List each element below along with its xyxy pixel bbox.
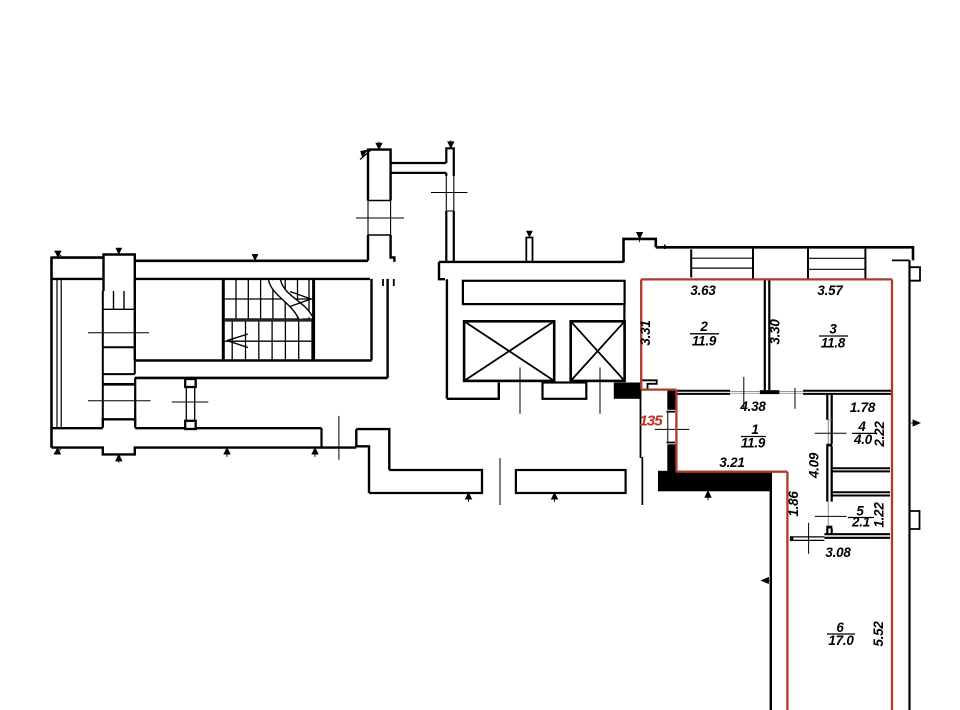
svg-text:17.0: 17.0 [828,633,854,648]
arrow: bottom band 1 [224,448,230,457]
wall: strip east line [134,378,136,419]
door: partition door 2 jambs [827,502,829,526]
arrow: lower band 2 [552,493,558,502]
dim tick: lower band opening 2 [641,457,643,505]
dim tick: elevator door 2 [599,368,601,414]
svg-text:2.1: 2.1 [851,515,870,530]
svg-text:2.22: 2.22 [872,421,887,448]
arrow: lower band 1 [466,493,472,502]
wall: vestibule strip west line [102,291,104,419]
dim line: connector crossing [172,401,209,403]
wall: lower band solid black part [658,471,771,492]
stairs: lower flight treads [232,322,312,361]
wall: small box x103-134 y347-374 [103,347,135,374]
dim tick: room3 door [794,388,796,409]
wall: left band end vertical [320,428,322,447]
svg-text:11.8: 11.8 [821,336,846,351]
wall: doorway head line [103,383,135,386]
wall: connector block top [185,379,196,387]
fraction line room4 [852,432,876,434]
wall: south wall right segment [803,391,891,394]
wall: partition door2 bottom cap [826,526,832,529]
wall: room2/3 partition [765,280,770,390]
dim tick: 3.08 wall [808,523,810,554]
wall: room4 south wall [832,468,890,471]
svg-text:3.08: 3.08 [825,545,851,560]
svg-text:4.0: 4.0 [853,432,873,447]
wall: corridor wall descending to bottom [770,471,772,710]
wall: partition door bottom cap [826,444,832,447]
wall: room5 north wall [832,492,890,495]
arrow: east wall right [911,420,920,426]
wall: pier edges [691,249,865,279]
arrow: bottom band notch [116,455,122,463]
wall: stair block top band top edge (left part) [52,256,104,259]
wall: top band pilaster bump [104,255,135,292]
wall: mullion window east edge [134,291,136,309]
window: bar1 sill lines [368,201,391,236]
wall: stair block east outer line [386,279,388,378]
svg-text:1.86: 1.86 [786,491,801,517]
wall: entrance east wall lower black [667,444,676,471]
wall: left exterior edge [50,257,53,448]
door threshold room3 [779,392,803,394]
niche rect [463,281,625,304]
window: bar2 thin middle [446,176,454,211]
wall: step up piece [624,239,656,263]
door threshold room2 [730,392,760,394]
elevator shaft 2 [571,321,625,381]
wall: connector block bottom [185,421,196,429]
dim line: left strip upper [88,332,149,334]
wall: east exterior wall [908,260,910,710]
red wall: east edge [891,279,893,710]
window: lower band rect [516,470,626,493]
svg-text:5.52: 5.52 [871,621,886,647]
wall: entrance east wall upper black [667,390,676,410]
tick on top edge [664,245,666,250]
wall: solid piece right of elevator door [614,383,642,399]
wall: left band bottom edge with notch [52,448,357,455]
dim tick: band door under entrance [642,457,644,505]
fraction line room6 [827,633,855,635]
dim tick: lower band door [499,458,501,505]
wall: pier between elevator doors [543,383,587,399]
svg-text:4.38: 4.38 [739,399,766,414]
fraction line room3 [819,335,848,337]
wall: lower band segment 1 [369,470,482,493]
red wall: entrance east edge [675,390,677,472]
svg-text:3.30: 3.30 [768,319,783,345]
arrow: bottom band 2 [312,448,318,457]
dim line: bar2 crossing [431,192,468,194]
dim line: left strip lower [88,400,151,402]
wall: stair block bottom outer edge [135,377,388,380]
window: room2 window lines [691,258,753,268]
wall: entrance west line [640,390,642,458]
arrow: bar1 corner diagonal [360,150,371,160]
svg-text:1.22: 1.22 [872,502,887,528]
svg-text:135: 135 [639,413,663,430]
elevator shaft 1 [464,321,554,381]
wall: staircase east wall [312,279,315,361]
wall: tower bar1 outline [368,150,394,262]
arrow: lower band 3 [705,491,711,500]
stairs: upper mid line [225,298,314,300]
wall: partition end cap [760,390,780,394]
svg-text:1.78: 1.78 [850,400,876,415]
door: entrance door jamb marks [667,412,676,443]
dim tick: door in band [338,416,340,460]
svg-text:3.21: 3.21 [719,455,744,470]
svg-text:3.57: 3.57 [817,283,843,298]
wall: partition lower part [827,446,831,501]
wall: elevator block east wall segment [623,304,625,321]
wall: east wall mid pilaster [910,511,920,529]
wall: top band bottom edge / interior top edge [135,278,370,280]
wall: stair block east interior line [370,279,372,361]
wall: tower bar2 [446,148,454,262]
arrow: bar1 top [376,142,382,150]
wall: building top edge [656,247,913,260]
arrow: bottom band left corner [54,448,61,454]
dim tick: partition door [815,432,847,434]
wall: rooms 2/3 south wall (segments) [676,391,730,394]
stairs: upper direction arrow head [290,292,311,307]
window: room3 window lines [808,258,865,269]
red wall: entrance top jog [641,388,676,390]
wall: room5 south wall thick [824,534,890,538]
wall: elevator block west wall [446,279,448,399]
wall: room2 SW corner notch [642,380,657,389]
fraction line room5 [848,517,874,519]
stairs: landing thick line [225,318,314,321]
stairs: S-curve break lines [269,280,314,320]
dim tick: elevator door 1 [519,368,521,414]
wall: connector wall below stair block [186,387,194,420]
wall: stair hall west interior wall [134,279,136,361]
window: left wall double line [57,279,61,429]
svg-text:11.9: 11.9 [692,334,717,349]
wall: stub below bar1 [383,279,394,286]
stairs: lower mid line [225,340,314,342]
wall: top band bottom edge left of bump [52,278,104,280]
dim tick: room2 door [743,377,745,409]
wall: staircase west wall [222,279,225,361]
arrow: top band bump [116,248,122,254]
wall: stair hall interior bottom edge [135,359,372,361]
vent pipe [526,238,532,262]
wall: top band top edge (right part) [135,259,368,262]
svg-text:3.63: 3.63 [690,283,716,298]
wall: east wall top pilaster [910,267,921,281]
svg-text:3: 3 [829,322,837,337]
fraction line room2 [690,333,719,335]
stairs: lower direction arrow head [227,334,248,348]
wall: elevator band outline [439,262,624,279]
window: mullions under bump [104,291,135,309]
arrow: corridor wall left [762,578,772,584]
wall: room5 south wall thin part [793,537,824,541]
wall: corridor/room4 partition upper [827,394,831,444]
svg-text:2: 2 [699,319,708,334]
red wall: room1 south edge [676,471,787,473]
door: partition door jambs [827,420,831,444]
red wall: west edge room2 [640,279,642,389]
stairs: upper flight treads [236,279,309,320]
wall: beam between towers [391,163,447,173]
stairs: S-curve break band (white fill) [269,280,313,319]
arrow: top band mid [252,254,258,260]
door: entrance thin leaf line [667,413,669,442]
svg-text:3.31: 3.31 [638,320,653,345]
wall: elevator block bottom left [447,383,499,399]
svg-text:11.9: 11.9 [741,436,766,451]
dim line: bar1 crossing [356,217,404,219]
dim tick: partition door 2 [815,515,847,517]
fraction line room1 [741,436,766,438]
arrow: vent pipe top [526,231,532,237]
arrow: top band left [55,251,62,257]
wall: partition bottom part [827,529,831,536]
wall: NE corner inner edge [892,259,910,261]
wall: stub at room6 NW [790,536,794,541]
wall: band top jog under strip [103,419,135,427]
arrow: bar2 top [448,140,454,148]
arrow: top wall step [637,232,643,242]
svg-text:4.09: 4.09 [807,452,822,479]
red wall: top edge [641,278,892,280]
red wall: room6 west edge [786,472,788,710]
wall: left band top edge [52,427,322,429]
wall: L-wall to lower band [356,429,389,493]
leader line 135 [655,428,690,430]
